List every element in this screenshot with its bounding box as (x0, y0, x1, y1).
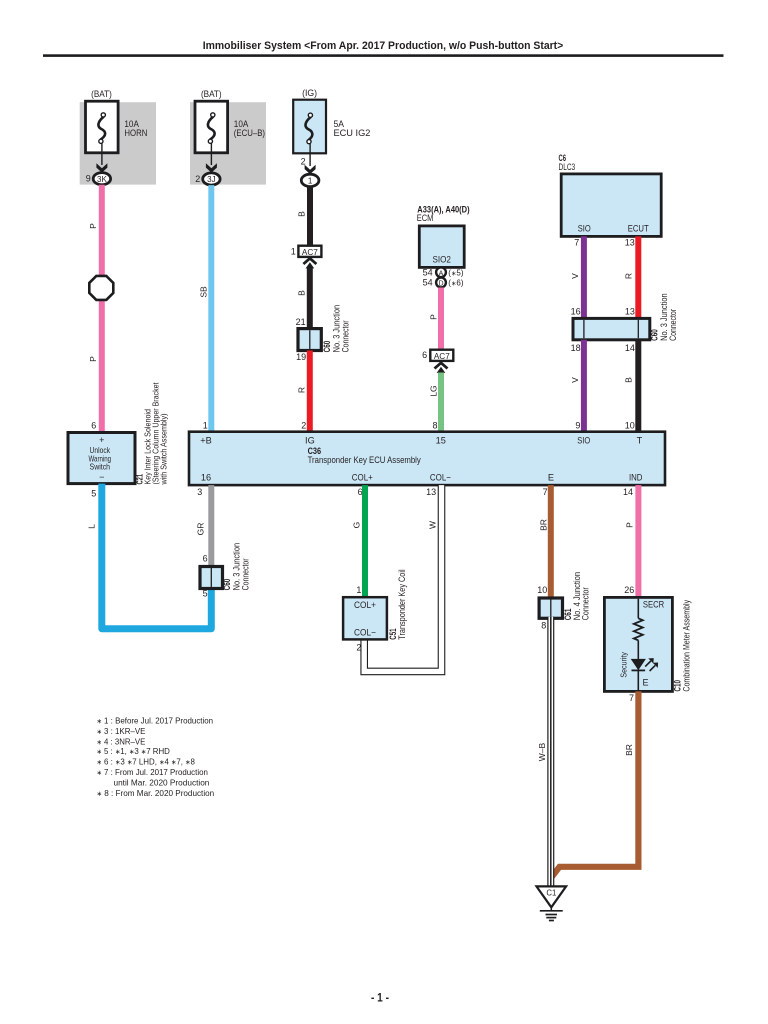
footnotes (97, 716, 215, 798)
C10 box (604, 597, 672, 691)
connector oval 3J, pin 2 (195, 173, 220, 185)
svg-text:P: P (625, 522, 635, 528)
wire from fuse to connector 3K (101, 144, 103, 166)
wire G from C36 COL+ to C51 (362, 485, 368, 597)
svg-text:∗ 6 : ∗3 ∗7 LHD, ∗4 ∗7, ∗8: ∗ 6 : ∗3 ∗7 LHD, ∗4 ∗7, ∗8 (97, 756, 196, 766)
svg-text:1: 1 (356, 585, 361, 595)
svg-text:W–B: W–B (537, 742, 547, 761)
svg-text:1: 1 (203, 421, 208, 431)
svg-text:LG: LG (428, 385, 438, 396)
LED emission arrows (645, 661, 651, 667)
svg-text:IND: IND (629, 472, 643, 482)
svg-text:Security: Security (618, 651, 628, 677)
junction connector C60 (GR/L) (200, 567, 223, 589)
svg-text:2: 2 (195, 174, 200, 184)
arrowhead (206, 163, 217, 172)
svg-text:DLC3: DLC3 (559, 162, 576, 172)
svg-text:1: 1 (291, 246, 296, 256)
svg-text:Switch: Switch (90, 461, 111, 471)
wire P from fuse HORN to C21 pin 6 (99, 185, 105, 433)
wire B from oval 1 to AC7 (307, 187, 313, 246)
fuse body (293, 100, 326, 154)
svg-text:R: R (623, 273, 633, 279)
svg-text:C1: C1 (546, 889, 556, 898)
svg-text:R: R (297, 387, 307, 393)
svg-text:- 1 -: - 1 - (371, 990, 389, 1004)
wire P from C36 IND to C10 pin 26 (635, 485, 641, 597)
svg-text:COL+: COL+ (354, 600, 376, 610)
svg-text:E: E (548, 472, 554, 482)
fuse F2 10A ECU-B (195, 89, 265, 173)
svg-text:SIO: SIO (577, 436, 590, 446)
svg-text:10: 10 (625, 421, 635, 431)
svg-text:6: 6 (91, 421, 96, 431)
resistor R (security lamp) (634, 618, 643, 640)
svg-text:C60No. 3 JunctionConnector: C60No. 3 JunctionConnector (222, 543, 250, 591)
svg-text:COL−: COL− (354, 628, 376, 638)
wire L from C21 pin 5 to C60 junction (102, 484, 212, 629)
svg-text:B: B (623, 377, 633, 383)
svg-text:IG: IG (305, 436, 315, 446)
connector oval 3K, pin 9 (86, 173, 111, 185)
svg-text:GR: GR (196, 523, 206, 536)
svg-text:8: 8 (432, 421, 437, 431)
wire P from ECM to AC7 (bottom) (438, 288, 444, 350)
svg-text:SECR: SECR (643, 600, 665, 610)
svg-text:16: 16 (201, 472, 211, 482)
svg-text:until Mar. 2020 Production: until Mar. 2020 Production (114, 778, 210, 788)
wire V from C60 to C36 pin 9 (581, 340, 587, 433)
svg-text:Transponder Key ECU Assembly: Transponder Key ECU Assembly (308, 455, 422, 465)
svg-text:3K: 3K (97, 175, 107, 184)
connector circle D (436, 278, 446, 288)
svg-text:6: 6 (422, 350, 427, 360)
fuse block backdrop 2 (190, 102, 266, 184)
svg-text:26: 26 (624, 585, 634, 595)
svg-text:C60No. 3 JunctionConnector: C60No. 3 JunctionConnector (322, 305, 350, 353)
svg-text:1: 1 (308, 177, 313, 186)
wire GR from C36 pin 3 to C60 junction (208, 485, 214, 566)
chevron pair below AC7 bottom (435, 363, 448, 369)
transponder key coil C51 (343, 597, 387, 639)
LED security indicator (631, 659, 646, 670)
svg-text:5: 5 (91, 489, 96, 499)
svg-text:2: 2 (301, 157, 306, 167)
svg-text:G: G (352, 522, 362, 529)
ground point triangle C1 (537, 886, 567, 907)
wire BR from C10 pin 7 to ground junction (552, 691, 639, 876)
svg-text:(∗6): (∗6) (448, 279, 464, 288)
wire BR from C36 E to C61 (548, 485, 554, 598)
svg-text:COL+: COL+ (352, 472, 373, 482)
svg-text:3J: 3J (207, 175, 215, 184)
svg-text:T: T (637, 436, 643, 446)
noise filter octagon (89, 276, 113, 300)
fuse element (208, 117, 215, 139)
svg-text:7: 7 (574, 237, 579, 247)
svg-text:COL−: COL− (430, 472, 451, 482)
svg-text:∗ 8 : From Mar. 2020 Producti: ∗ 8 : From Mar. 2020 Production (97, 788, 215, 798)
wire SB from fuse ECU-B to C36 pin 1 (208, 185, 214, 432)
svg-text:13: 13 (625, 237, 635, 247)
svg-text:BR: BR (624, 744, 634, 756)
svg-text:7: 7 (629, 693, 634, 703)
svg-text:16: 16 (571, 307, 581, 317)
arrowhead (305, 165, 316, 174)
junction connector C60 (B/R) (298, 329, 321, 351)
svg-text:C61No. 4 JunctionConnector: C61No. 4 JunctionConnector (563, 572, 591, 620)
svg-text:19: 19 (296, 352, 306, 362)
svg-text:W: W (428, 521, 438, 529)
svg-text:21: 21 (296, 317, 306, 327)
internal wire LED to pin E (637, 670, 639, 691)
ground symbol (540, 907, 563, 920)
svg-text:HORN: HORN (124, 128, 147, 138)
svg-text:ECUT: ECUT (628, 223, 649, 233)
fuse element (306, 117, 313, 139)
fuse F3 5A ECU IG2 (293, 88, 370, 174)
fuse body (195, 101, 228, 153)
svg-text:SIO: SIO (578, 223, 591, 233)
wire R from C6 ECUT to C60 (635, 236, 641, 318)
connector oval 1 (301, 174, 319, 186)
svg-text:5: 5 (203, 589, 208, 599)
svg-text:(BAT): (BAT) (201, 89, 222, 99)
svg-text:SIO2: SIO2 (432, 254, 451, 264)
svg-text:(BAT): (BAT) (91, 89, 112, 99)
chevron pair below AC7 (303, 258, 316, 264)
svg-text:∗ 5 : ∗1, ∗3 ∗7 RHD: ∗ 5 : ∗1, ∗3 ∗7 RHD (97, 746, 170, 756)
junction connector C60 (wide) (573, 318, 650, 339)
svg-text:C10Combination Meter Assembly: C10Combination Meter Assembly (672, 599, 691, 691)
wire B from AC7 to C60 pin 21 (307, 268, 313, 329)
in-line connector AC7 (top) (298, 246, 321, 257)
transponder key ECU assembly C36 (189, 432, 665, 485)
svg-text:7: 7 (543, 487, 548, 497)
svg-text:18: 18 (571, 343, 581, 353)
svg-text:E: E (643, 678, 649, 688)
svg-text:D: D (438, 281, 443, 288)
svg-text:(∗5): (∗5) (448, 268, 464, 277)
wire R from C60 pin 19 to C36 pin 2 (307, 351, 313, 433)
junction connector C61 (539, 598, 562, 618)
svg-text:ECM: ECM (417, 213, 434, 223)
in-line connector AC7 (bottom) (430, 350, 453, 361)
svg-text:C21Key Inter Lock Solenoid(Ste: C21Key Inter Lock Solenoid(Steering Colu… (135, 382, 169, 485)
svg-text:3: 3 (197, 487, 202, 497)
wire B from C60 to C36 pin 10 (635, 340, 641, 433)
wire W from C36 COL- to C51 pin 2 (outlined white wire) (364, 485, 441, 671)
svg-text:P: P (88, 223, 98, 229)
fuse block backdrop 1 (80, 102, 156, 184)
wire W-B from C61 pin 8 to ground C1 (outlined white wire with black stripe) (547, 617, 554, 887)
internal wire from SECR pin (637, 599, 639, 619)
svg-text:C60No. 3 JunctionConnector: C60No. 3 JunctionConnector (650, 293, 678, 341)
wire from fuse to connector 3J (210, 144, 212, 166)
svg-text:54: 54 (423, 267, 433, 277)
svg-text:∗ 3 : 1KR–VE: ∗ 3 : 1KR–VE (97, 726, 146, 736)
DLC3 box C6 (561, 174, 661, 237)
fuse element (98, 117, 105, 139)
svg-text:10: 10 (537, 585, 547, 595)
svg-text:14: 14 (625, 343, 635, 353)
svg-text:P: P (88, 356, 98, 362)
svg-text:+B: +B (200, 436, 212, 446)
unlock warning switch C21 (68, 433, 135, 484)
svg-text:V: V (570, 377, 580, 383)
svg-text:8: 8 (541, 620, 546, 630)
svg-text:(ECU–B): (ECU–B) (234, 128, 265, 138)
svg-text:Immobiliser System <From Apr.: Immobiliser System <From Apr. 2017 Produ… (203, 40, 564, 52)
svg-text:∗ 1 : Before Jul. 2017 Produc: ∗ 1 : Before Jul. 2017 Production (97, 716, 214, 726)
wire from fuse to connector 1 (309, 144, 311, 166)
title: Immobiliser System header (43, 40, 724, 57)
svg-text:54: 54 (423, 278, 433, 288)
svg-text:C51Transponder Key Coil: C51Transponder Key Coil (388, 569, 407, 639)
svg-text:9: 9 (575, 421, 580, 431)
svg-text:15: 15 (436, 436, 446, 446)
svg-text:AC7: AC7 (302, 248, 318, 257)
svg-text:2: 2 (356, 643, 361, 653)
wire LG from AC7 to C36 pin 8 (438, 373, 444, 433)
wire V from C6 SIO to C60 (581, 236, 587, 318)
combination meter C10 (604, 597, 672, 691)
internal wire resistor to LED (637, 640, 639, 659)
svg-text:2: 2 (301, 421, 306, 431)
fuse body (86, 101, 119, 153)
svg-text:14: 14 (623, 487, 633, 497)
arrowhead (96, 163, 107, 172)
svg-text:L: L (87, 524, 97, 529)
svg-text:A: A (439, 270, 444, 277)
svg-text:6: 6 (203, 554, 208, 564)
svg-text:BR: BR (539, 519, 549, 531)
connector circle A (436, 267, 446, 277)
svg-text:P: P (429, 314, 439, 320)
svg-text:B: B (297, 211, 307, 217)
ECM box U A33/A40 (419, 226, 464, 268)
svg-text:∗ 7 : From Jul. 2017 Producti: ∗ 7 : From Jul. 2017 Production (97, 767, 209, 777)
svg-text:6: 6 (358, 487, 363, 497)
svg-text:AC7: AC7 (434, 352, 450, 361)
svg-text:9: 9 (86, 174, 91, 184)
svg-text:13: 13 (625, 307, 635, 317)
svg-text:V: V (570, 273, 580, 279)
svg-text:(IG): (IG) (302, 88, 317, 98)
fuse F1 10A HORN (86, 89, 148, 173)
svg-text:ECU IG2: ECU IG2 (334, 128, 371, 138)
svg-text:SB: SB (199, 286, 209, 298)
svg-text:B: B (297, 290, 307, 296)
svg-text:+: + (99, 435, 104, 445)
svg-text:13: 13 (426, 487, 436, 497)
svg-text:−: − (99, 472, 104, 482)
